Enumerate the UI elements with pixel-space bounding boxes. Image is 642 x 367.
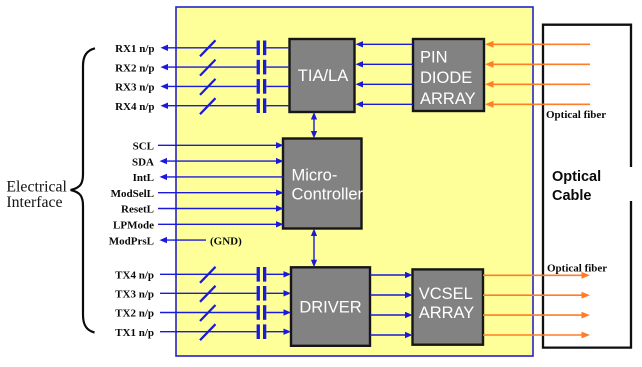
svg-text:TIA/LA: TIA/LA — [298, 67, 348, 85]
brace electrical interface — [71, 48, 95, 332]
wire ResetL — [158, 205, 284, 211]
fiber RX 1 — [485, 41, 590, 48]
module body (yellow) — [176, 7, 533, 356]
wire ModSelL — [158, 190, 284, 196]
wire TIA-MC vertical — [311, 112, 317, 139]
wire TX2 left — [160, 305, 291, 321]
svg-text:Optical fiber: Optical fiber — [547, 263, 607, 275]
svg-text:Cable: Cable — [552, 188, 592, 204]
svg-text:Interface: Interface — [6, 194, 62, 211]
svg-text:ModPrsL: ModPrsL — [109, 235, 154, 247]
svg-text:TX3 n/p: TX3 n/p — [115, 289, 154, 301]
svg-text:ARRAY: ARRAY — [420, 90, 476, 108]
svg-text:TX4 n/p: TX4 n/p — [115, 270, 154, 282]
fiber RX 4 — [485, 101, 590, 108]
fiber TX 1 — [483, 272, 590, 279]
svg-text:TX1 n/p: TX1 n/p — [115, 327, 154, 339]
wire DRIVER to VCSEL 1 — [370, 272, 413, 278]
label Electrical Interface — [6, 178, 67, 211]
svg-text:Electrical: Electrical — [6, 178, 67, 195]
svg-text:ResetL: ResetL — [121, 204, 154, 216]
wire TX4 left — [160, 267, 291, 283]
fiber RX 2 — [485, 61, 590, 68]
svg-text:LPMode: LPMode — [113, 220, 154, 232]
wire PIN to TIA 1 — [356, 41, 414, 47]
svg-text:RX2 n/p: RX2 n/p — [115, 62, 154, 74]
wire SDA — [160, 158, 284, 164]
svg-text:ModSelL: ModSelL — [111, 188, 154, 200]
svg-text:Micro-: Micro- — [292, 167, 338, 185]
optical cable box — [543, 25, 631, 348]
wire SCL — [158, 142, 284, 148]
svg-text:PIN: PIN — [420, 48, 448, 66]
wire ModPrsL to GND — [160, 237, 207, 243]
wire TX1 left — [160, 324, 291, 340]
block TIA/LA — [290, 39, 355, 112]
wire RX2 left — [161, 60, 290, 76]
svg-text:IntL: IntL — [133, 172, 154, 184]
wire PIN to TIA 2 — [356, 61, 414, 67]
svg-text:(GND): (GND) — [210, 236, 242, 248]
fiber TX 3 — [483, 312, 590, 319]
wire PIN to TIA 3 — [356, 81, 414, 87]
wire RX1 left — [161, 40, 290, 56]
fiber TX 2 — [483, 292, 590, 299]
svg-text:Controller: Controller — [292, 186, 364, 204]
wire MC-DRIVER vertical — [311, 229, 317, 268]
svg-text:ARRAY: ARRAY — [419, 304, 475, 322]
svg-text:RX4 n/p: RX4 n/p — [115, 101, 154, 113]
svg-text:RX3 n/p: RX3 n/p — [115, 82, 154, 94]
svg-text:Optical fiber: Optical fiber — [546, 109, 606, 121]
wire IntL — [160, 174, 284, 180]
fiber TX 4 — [483, 332, 590, 339]
wire DRIVER to VCSEL 4 — [370, 332, 413, 338]
wire RX3 left — [161, 79, 290, 95]
block Micro-Controller — [283, 139, 364, 229]
svg-text:DIODE: DIODE — [420, 69, 472, 87]
svg-text:SDA: SDA — [132, 156, 154, 168]
wire DRIVER to VCSEL 3 — [370, 312, 413, 318]
block PIN DIODE ARRAY — [413, 39, 484, 111]
wire PIN to TIA 4 — [356, 101, 414, 107]
svg-text:TX2 n/p: TX2 n/p — [115, 308, 154, 320]
wire TX3 left — [160, 286, 291, 302]
svg-text:Optical: Optical — [552, 169, 601, 185]
svg-text:VCSEL: VCSEL — [419, 285, 473, 303]
label Optical Cable — [552, 169, 601, 204]
block DRIVER — [291, 267, 370, 346]
block VCSEL ARRAY — [413, 269, 484, 344]
svg-text:DRIVER: DRIVER — [299, 299, 361, 317]
svg-text:RX1 n/p: RX1 n/p — [115, 43, 154, 55]
wire RX4 left — [161, 98, 290, 114]
fiber RX 3 — [485, 81, 590, 88]
wire LPMode — [158, 221, 284, 227]
wire DRIVER to VCSEL 2 — [370, 292, 413, 298]
svg-text:SCL: SCL — [133, 141, 154, 153]
